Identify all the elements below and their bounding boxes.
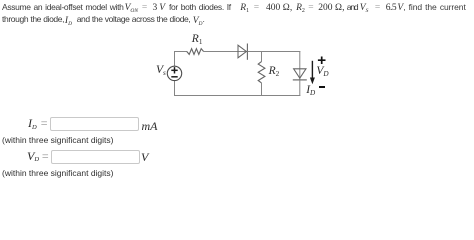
plus sign inside source [171,67,177,73]
input box 1 [50,117,139,131]
label Vs [156,64,166,76]
label VD [316,65,328,77]
resistor R1 zigzag [187,49,204,55]
resistor R2 zigzag [258,62,265,83]
diode D1 triangle [238,45,246,58]
diode D1 cathode bar [246,44,248,60]
wire: R1 to diode D1 [204,51,248,53]
answer row 2: VD [27,149,49,164]
unit V [141,150,148,165]
label minus polarity [319,86,326,88]
wire: right branch top stub [299,51,301,80]
wire: R2 branch bottom stub [261,83,263,96]
diode D2 cathode bar [293,79,307,81]
wire: top segment left of R1 [174,51,187,53]
diode D2 triangle [294,69,306,78]
label R2 [269,65,280,77]
current arrow ID [311,61,313,79]
wire: R2 branch top stub [261,51,263,62]
wire: bottom [174,95,300,97]
circuit schematic [0,0,474,188]
label R1 [192,33,203,45]
label ID current [306,84,315,96]
wire: diode D1 to top-right corner [247,51,300,53]
wire: source bottom to bottom-left corner [174,81,176,96]
label plus polarity [317,55,327,66]
note 1 [2,135,114,145]
answer row 1: ID [28,116,47,131]
wire: top-left vertical from corner to source top [174,51,176,66]
problem statement line 1 [2,2,466,13]
voltage source Vs [167,66,181,80]
wire: right branch bottom stub [299,80,301,96]
unit mA [142,119,158,134]
minus sign inside source [171,76,177,78]
note 2 [2,168,114,178]
input box 2 [51,150,140,164]
problem statement line 2 [2,14,205,25]
